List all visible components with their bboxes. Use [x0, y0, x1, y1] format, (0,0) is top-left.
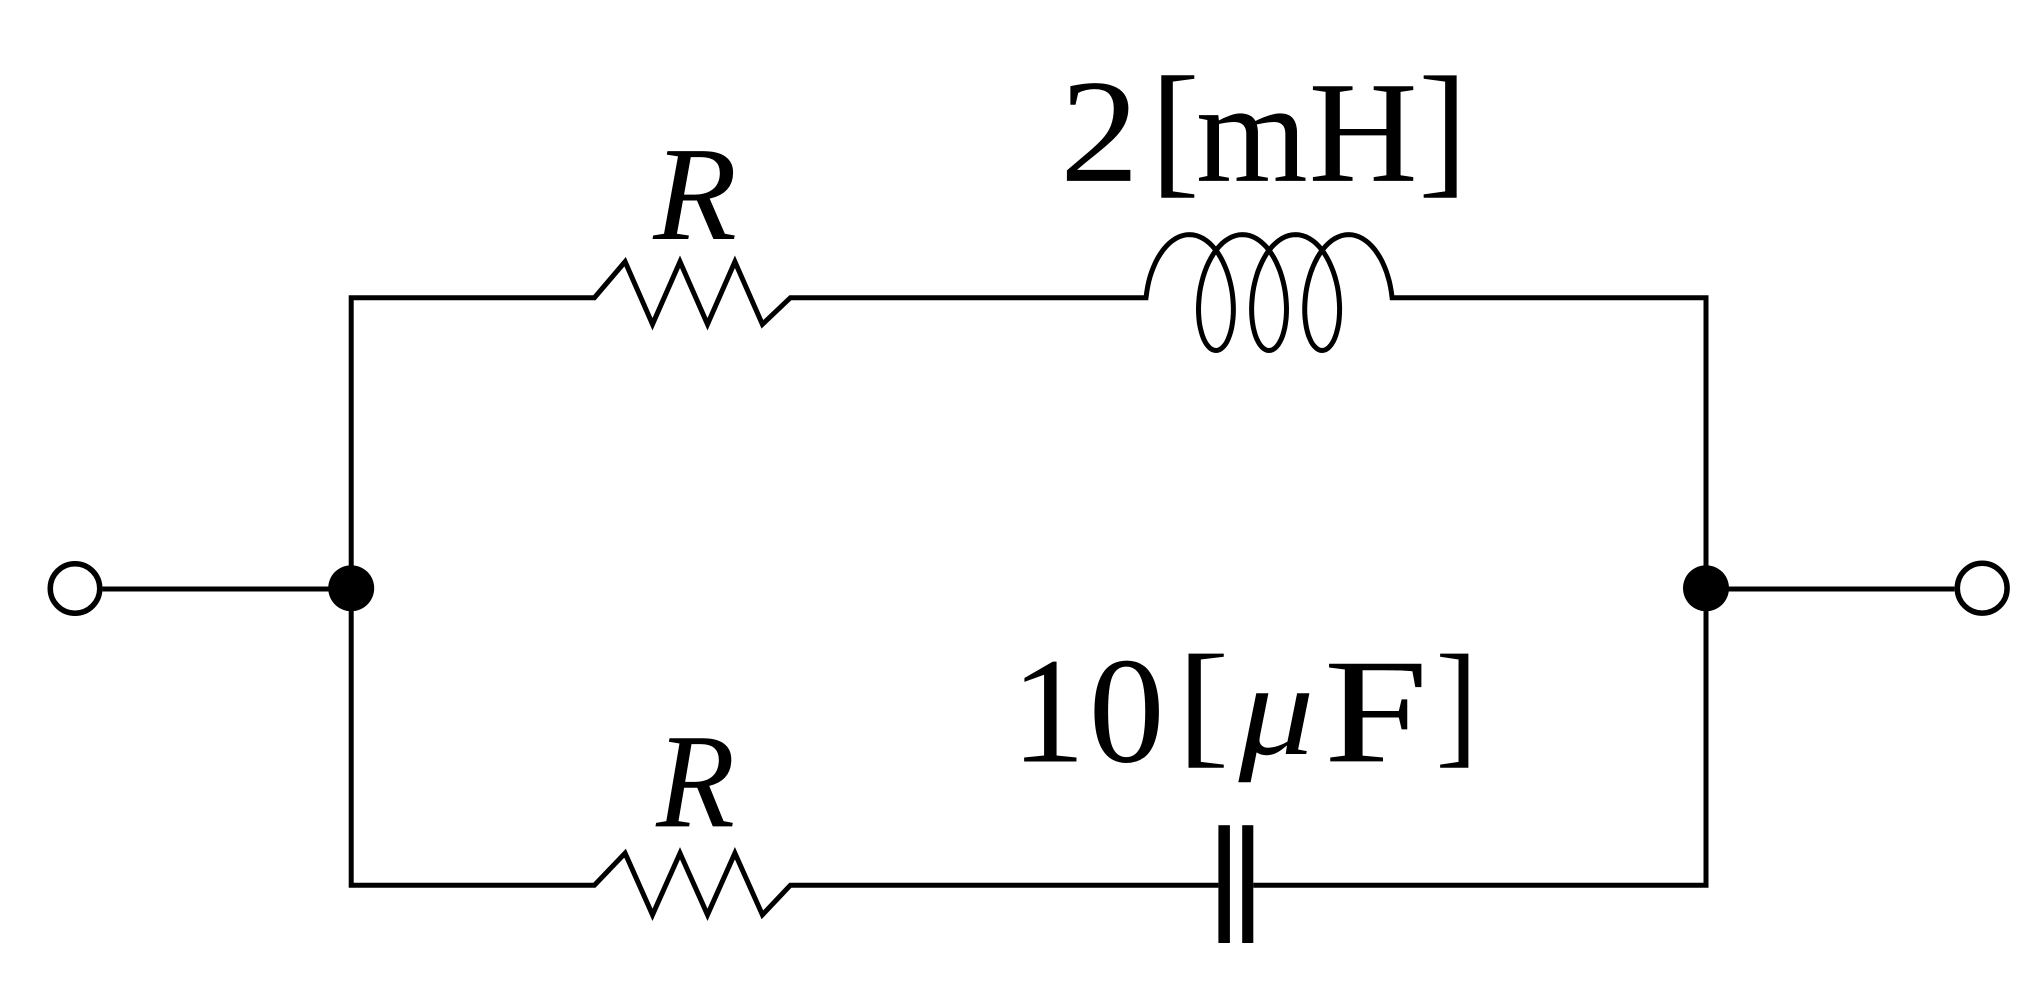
svg-text:]: ]	[1436, 626, 1478, 779]
svg-text:2: 2	[1060, 51, 1139, 214]
svg-text:[: [	[1177, 628, 1230, 780]
svg-text:1: 1	[1011, 627, 1085, 794]
svg-text:R: R	[652, 120, 737, 268]
svg-text:F: F	[1324, 629, 1429, 794]
svg-text:R: R	[655, 707, 735, 856]
svg-text:μ: μ	[1237, 636, 1314, 783]
svg-text:]: ]	[1418, 47, 1467, 211]
svg-text:H: H	[1309, 52, 1418, 212]
svg-text:0: 0	[1089, 627, 1165, 795]
svg-text:[: [	[1150, 47, 1199, 211]
svg-text:m: m	[1196, 54, 1308, 213]
